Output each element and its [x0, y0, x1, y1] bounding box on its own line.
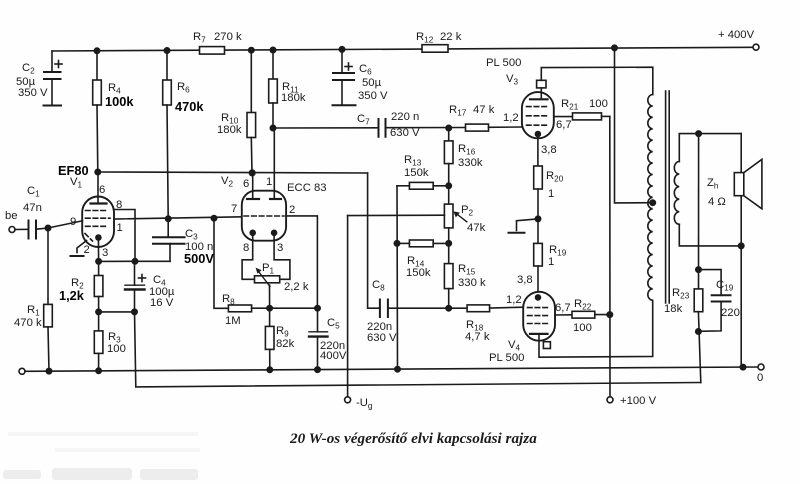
svg-text:47 k: 47 k: [473, 104, 495, 116]
capacitor C8: [367, 279, 467, 344]
svg-text:be: be: [5, 210, 18, 222]
svg-text:2: 2: [84, 244, 90, 256]
svg-text:220: 220: [721, 307, 740, 319]
capacitor C6: [333, 47, 388, 105]
svg-text:4 Ω: 4 Ω: [708, 196, 726, 208]
svg-text:100: 100: [573, 322, 592, 334]
resistor R21: [554, 98, 610, 120]
svg-text:6,7: 6,7: [555, 302, 571, 314]
potentiometer P2: [444, 186, 485, 244]
loudspeaker Zh: [707, 134, 762, 367]
resistor R2: [59, 261, 103, 312]
svg-text:18k: 18k: [664, 303, 683, 315]
transformer primary winding: [648, 95, 656, 301]
svg-text:ECC 83: ECC 83: [287, 182, 327, 194]
wire V1 anode to V2 pin6 (y=172 net): [95, 169, 368, 175]
wire ground rail (0): [19, 364, 764, 384]
svg-text:500V: 500V: [184, 251, 214, 266]
svg-text:350 V: 350 V: [18, 87, 48, 99]
svg-text:1,2: 1,2: [506, 294, 522, 306]
svg-text:6: 6: [99, 184, 105, 196]
svg-text:16 V: 16 V: [150, 297, 174, 309]
svg-text:1,2k: 1,2k: [59, 288, 85, 303]
wire R13/R14 divider leg to ground: [396, 186, 399, 369]
svg-text:1: 1: [117, 222, 123, 234]
tube V2 ECC83: [221, 128, 327, 254]
svg-text:270 k: 270 k: [214, 31, 242, 43]
resistor R22: [555, 298, 613, 334]
resistor R13: [397, 154, 451, 189]
svg-text:82k: 82k: [276, 338, 295, 350]
svg-text:50µ: 50µ: [362, 77, 382, 89]
svg-text:1M: 1M: [225, 315, 241, 327]
svg-text:8: 8: [243, 242, 249, 254]
potentiometer P1 with cathode bracket: [242, 233, 309, 308]
svg-text:400V: 400V: [320, 350, 347, 362]
svg-text:330k: 330k: [458, 157, 483, 169]
resistor R11: [269, 47, 306, 130]
svg-text:7: 7: [231, 203, 237, 215]
svg-text:3,8: 3,8: [517, 274, 533, 286]
svg-text:100k: 100k: [105, 94, 134, 109]
wire feedback rail to cathode node: [135, 312, 701, 387]
resistor R9: [265, 308, 294, 369]
wire -Ug net to P2 wiper: [348, 214, 445, 216]
resistor R1: [14, 228, 52, 371]
svg-text:350 V: 350 V: [358, 90, 388, 102]
svg-text:22 k: 22 k: [440, 31, 462, 43]
resistor R10: [217, 48, 256, 173]
svg-text:630 V: 630 V: [367, 332, 397, 344]
transformer core: [666, 91, 670, 303]
resistor R7: [193, 31, 242, 54]
scan smudge bottom-left: [3, 432, 200, 480]
resistor R19: [534, 219, 567, 298]
wire primary centre tap to +400V rail: [612, 45, 653, 203]
svg-text:PL 500: PL 500: [489, 352, 524, 364]
wire screen bus to +100V terminal: [607, 116, 657, 407]
resistor R8: [214, 218, 320, 327]
input terminal be: [5, 210, 29, 233]
resistor R20: [534, 134, 564, 219]
tube V4 PL500: [489, 274, 571, 364]
svg-text:180k: 180k: [217, 124, 242, 136]
svg-text:6,7: 6,7: [556, 119, 572, 131]
svg-text:2: 2: [289, 204, 295, 216]
svg-text:470 k: 470 k: [14, 317, 42, 329]
svg-text:1: 1: [548, 188, 554, 200]
svg-text:47n: 47n: [23, 202, 42, 214]
svg-text:0: 0: [757, 372, 763, 384]
svg-text:1,2: 1,2: [503, 112, 519, 124]
wire cathode R2/C4 bottom node: [96, 309, 137, 314]
svg-text:PL 500: PL 500: [486, 57, 521, 69]
wire -Ug bias line and terminal: [345, 216, 373, 411]
svg-text:470k: 470k: [175, 99, 204, 114]
svg-text:100: 100: [107, 343, 126, 355]
svg-text:3: 3: [277, 242, 283, 254]
svg-text:3: 3: [102, 247, 108, 259]
capacitor C19: [698, 270, 739, 332]
svg-text:2,2 k: 2,2 k: [284, 281, 309, 293]
resistor R14: [394, 240, 451, 279]
svg-text:1: 1: [548, 256, 554, 268]
V1 heater pin2 to chassis: [71, 241, 87, 257]
resistor R16: [444, 128, 482, 186]
resistor R15: [444, 243, 486, 308]
tube V1 EF80: [58, 163, 123, 261]
capacitor C3: [153, 219, 214, 266]
wire +400V top rail: [52, 29, 759, 51]
svg-text:180k: 180k: [281, 92, 306, 104]
svg-text:330 k: 330 k: [458, 277, 486, 289]
resistor R18: [465, 305, 523, 343]
wire V3 top cap anode to transformer: [541, 67, 653, 94]
wire V1 pin1 to V2 pin7 (grid net): [114, 216, 242, 222]
node cathode junction with chassis hook: [509, 216, 541, 233]
resistor R3: [94, 312, 126, 371]
capacitor C5: [309, 308, 347, 369]
wire V2 pin2 down: [286, 216, 317, 308]
svg-text:6: 6: [243, 178, 249, 190]
svg-text:4,7 k: 4,7 k: [465, 331, 490, 343]
svg-text:100: 100: [589, 98, 608, 110]
resistor R23: [664, 134, 703, 383]
resistor R6: [163, 48, 205, 219]
resistor R12: [416, 31, 462, 52]
svg-text:630 V: 630 V: [390, 127, 420, 139]
transformer secondary winding: [674, 131, 744, 249]
capacitor C4: [125, 261, 175, 312]
svg-text:47k: 47k: [467, 222, 486, 234]
wire C8 column from y=173 net: [368, 173, 380, 308]
capacitor C7: [273, 111, 466, 139]
svg-text:+ 400V: + 400V: [718, 29, 755, 41]
wire V4 anode/top-cap to transformer bottom: [539, 300, 653, 357]
svg-text:220 n: 220 n: [391, 111, 419, 123]
wire V1 pin8 branch: [114, 210, 138, 264]
resistor R17: [446, 104, 522, 131]
svg-text:1: 1: [266, 176, 272, 188]
svg-text:20 W-os végerősítő elvi kapcso: 20 W-os végerősítő elvi kapcsolási rajza: [289, 430, 537, 447]
tube V3 PL500: [486, 57, 572, 156]
svg-text:150k: 150k: [406, 267, 431, 279]
svg-text:+100 V: +100 V: [620, 395, 657, 407]
wire V1 cathode node: [96, 259, 170, 264]
svg-text:150k: 150k: [404, 167, 429, 179]
svg-text:3,8: 3,8: [541, 144, 557, 156]
capacitor C2: [16, 51, 62, 106]
resistor R4: [93, 48, 135, 172]
capacitor C1: [23, 185, 42, 239]
wire input to V1 grid pin9: [36, 221, 83, 231]
